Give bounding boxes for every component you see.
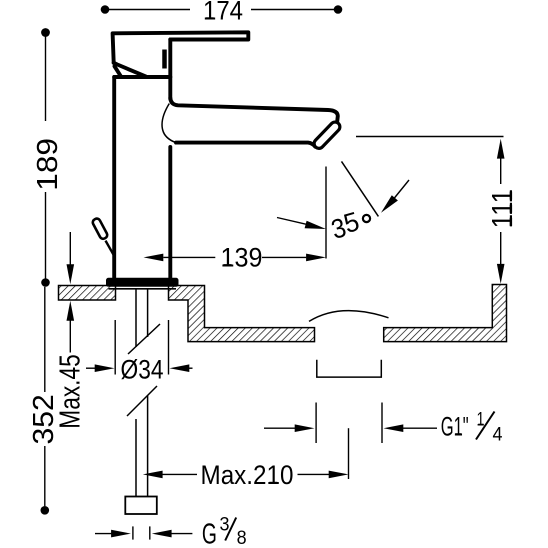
dimension 111 bbox=[497, 139, 505, 284]
angle arrow lower bbox=[277, 218, 326, 230]
drain pull knob bbox=[92, 217, 109, 240]
base flange bbox=[106, 278, 179, 289]
svg-text:111: 111 bbox=[487, 189, 519, 228]
sink bottom right and countertop right column bbox=[384, 285, 507, 342]
supply hose upper segment bbox=[136, 289, 148, 347]
svg-text:Max.210: Max.210 bbox=[201, 460, 294, 490]
dimension 352 line with dot bbox=[41, 287, 50, 515]
sink dome arc over drain bbox=[309, 311, 389, 322]
spout body fillet curve bbox=[162, 104, 175, 143]
dimension 139 bbox=[144, 254, 326, 262]
serif feet for digit 1 glyphs bbox=[206, 18, 511, 483]
svg-text:G: G bbox=[202, 518, 217, 548]
dimension Max.45 arrows bbox=[67, 232, 75, 353]
countertop left section bbox=[59, 286, 116, 301]
temperature indicator tick bbox=[162, 50, 167, 69]
hose break line upper bbox=[128, 324, 160, 354]
angle arrow upper bbox=[381, 180, 409, 213]
hose end connector bbox=[125, 497, 157, 515]
drain pull rod bbox=[106, 241, 114, 256]
spout tip reference line bbox=[356, 136, 504, 138]
svg-text:8: 8 bbox=[237, 528, 247, 548]
label G 3/8 bbox=[202, 515, 247, 548]
dimension G 3/8 bbox=[95, 526, 192, 539]
spout bbox=[170, 98, 337, 147]
svg-text:189: 189 bbox=[32, 138, 64, 191]
countertop middle step and sink bottom left bbox=[169, 286, 315, 342]
dimension Max.210 bbox=[143, 471, 349, 479]
angle 35 degree stream line bbox=[342, 161, 379, 216]
hose break line lower bbox=[127, 386, 157, 416]
drain tailpiece bracket bbox=[317, 360, 382, 377]
svg-text:Ø34: Ø34 bbox=[121, 355, 164, 385]
faucet body column bbox=[114, 40, 170, 279]
label G1 inch 1/4 bbox=[441, 410, 503, 446]
handle lever and cartridge housing bbox=[113, 32, 249, 76]
dimension 174 line with dots bbox=[101, 5, 343, 14]
supply hose lower segment bbox=[136, 396, 148, 497]
svg-text:139: 139 bbox=[221, 242, 263, 272]
svg-text:Max.45: Max.45 bbox=[55, 354, 87, 428]
lever pivot strut bbox=[115, 66, 122, 76]
drain center extension line bbox=[348, 428, 350, 479]
extension line at spout tip bbox=[325, 167, 327, 259]
label 35 degrees rotated bbox=[328, 206, 363, 245]
aerator band at spout tip bbox=[312, 120, 342, 150]
svg-text:G1": G1" bbox=[441, 411, 469, 441]
svg-text:174: 174 bbox=[203, 0, 243, 26]
dimension 189 line with dots bbox=[41, 28, 50, 287]
svg-text:4: 4 bbox=[493, 425, 503, 446]
dimension diameter 34 bbox=[86, 320, 193, 375]
dimension G1 1/4 bbox=[264, 403, 437, 444]
